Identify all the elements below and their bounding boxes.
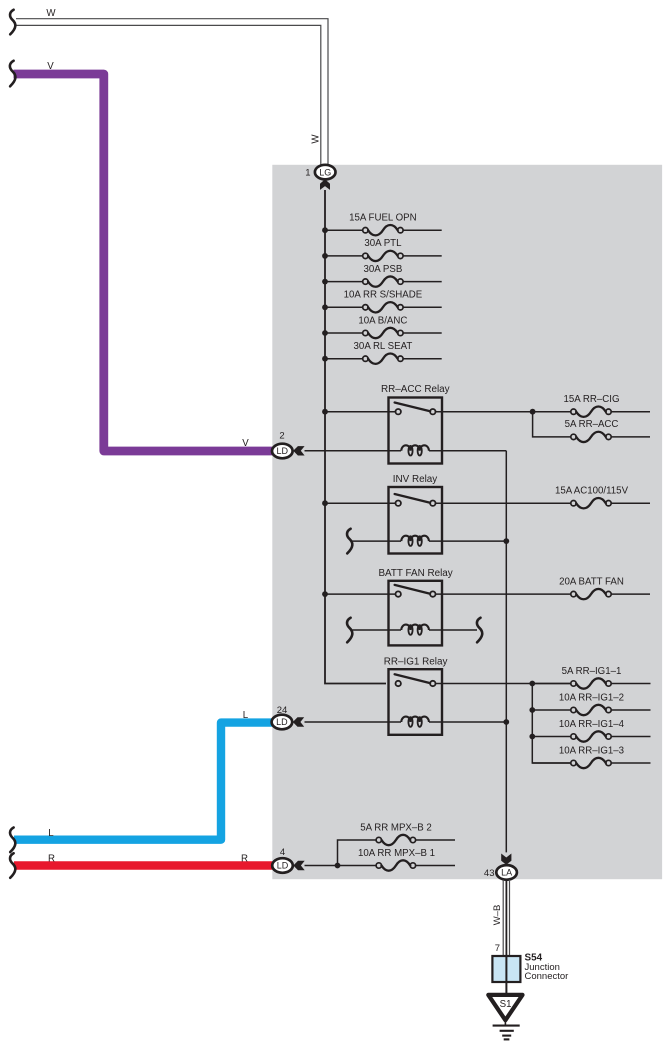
fuse 5A RR MPX–B 2 wire/symbol — [375, 839, 377, 841]
arrow up into LG — [320, 179, 330, 190]
junction on bus BATT FAN — [322, 591, 328, 597]
svg-text:15A AC100/115V: 15A AC100/115V — [555, 485, 629, 496]
junction on bus RR-ACC — [322, 409, 328, 415]
junction at RR-CIG branch — [530, 409, 536, 415]
break symbol on wire W — [10, 10, 15, 35]
fuse 5A RR–ACC wire/symbol — [570, 436, 572, 438]
svg-text:W: W — [311, 134, 322, 144]
svg-text:15A FUEL OPN: 15A FUEL OPN — [349, 213, 416, 224]
wire R (red) — [14, 861, 272, 869]
svg-text:2: 2 — [279, 431, 284, 442]
break symbol on wire V — [10, 61, 16, 87]
fuse 30A RL SEAT wire/symbol — [325, 358, 363, 360]
arrow down into LA — [501, 854, 511, 865]
svg-text:15A RR–CIG: 15A RR–CIG — [564, 394, 620, 405]
fuse 15A FUEL OPN wire/symbol — [325, 229, 363, 231]
relay RR-IG1 switch contact — [396, 681, 401, 686]
junction INV coil to right vertical — [503, 538, 509, 544]
svg-text:V: V — [47, 61, 54, 72]
fuse 10A RR S/SHADE wire/symbol — [325, 306, 363, 308]
break symbol on wire R — [10, 853, 15, 878]
junction on bus at 10A RR S/SHADE — [322, 304, 328, 310]
fuse 30A PTL wire/symbol — [325, 255, 363, 257]
svg-text:30A PTL: 30A PTL — [364, 238, 402, 249]
fuse 10A B/ANC wire/symbol — [325, 332, 363, 334]
fuse 10A RR–IG1–3 wire/symbol — [532, 762, 573, 764]
connector LG pin 1 — [315, 165, 336, 180]
svg-text:7: 7 — [495, 943, 500, 954]
wire L (blue) — [14, 723, 272, 840]
svg-text:10A RR–IG1–2: 10A RR–IG1–2 — [559, 692, 624, 703]
junction at branch 10A RR–IG1–4 — [529, 734, 535, 740]
relay RR-ACC box — [389, 398, 443, 464]
relay RR-IG1 coil — [401, 717, 429, 722]
svg-text:RR–ACC Relay: RR–ACC Relay — [381, 384, 450, 395]
svg-text:V: V — [242, 438, 249, 449]
wire W-B (white-black, outlined) — [503, 880, 509, 956]
fuse 10A RR–IG1–2 wire/symbol — [532, 709, 571, 711]
relay BATT FAN coil — [401, 625, 429, 630]
wire through S54 — [505, 956, 507, 995]
svg-text:BATT FAN Relay: BATT FAN Relay — [378, 568, 452, 579]
wire INV coil row — [353, 540, 507, 542]
svg-text:LD: LD — [276, 717, 288, 727]
wire V (violet) — [14, 74, 273, 451]
connector LA pin 43 — [496, 865, 517, 880]
relay RR-ACC coil — [401, 445, 429, 450]
svg-text:5A RR–ACC: 5A RR–ACC — [565, 419, 619, 430]
svg-text:5A RR MPX–B 2: 5A RR MPX–B 2 — [360, 822, 432, 833]
svg-text:R: R — [241, 854, 248, 865]
wire RR-ACC switch to fuse branch — [436, 411, 572, 413]
break symbol right of BATT FAN coil — [477, 618, 482, 643]
break symbol on wire L — [10, 828, 15, 853]
svg-text:L: L — [48, 828, 54, 839]
svg-text:LA: LA — [501, 868, 512, 878]
branch wire down to RR-ACC fuse — [533, 412, 571, 437]
svg-text:4: 4 — [280, 847, 285, 858]
junction RR-IG1 fuse branch — [529, 681, 535, 687]
wire BATT FAN switch to fuse — [436, 593, 572, 595]
connector LD pin 2 — [272, 444, 293, 459]
break symbol left of INV coil — [347, 529, 352, 554]
svg-text:20A BATT FAN: 20A BATT FAN — [559, 576, 624, 587]
svg-text:W–B: W–B — [492, 905, 503, 926]
connector LD pin 4 — [272, 858, 293, 873]
svg-text:LD: LD — [277, 861, 289, 871]
junction on bus at 15A FUEL OPN — [322, 227, 328, 233]
svg-text:Connector: Connector — [525, 971, 569, 982]
junction block panel — [272, 165, 662, 879]
junction on bus at 30A PSB — [322, 279, 328, 285]
svg-text:5A RR–IG1–1: 5A RR–IG1–1 — [562, 666, 622, 677]
wire RR-IG1 coil row (from LD 24 to right vertical) — [305, 721, 507, 723]
svg-text:INV Relay: INV Relay — [393, 474, 438, 485]
svg-text:10A RR–IG1–4: 10A RR–IG1–4 — [559, 719, 625, 730]
relay BATT FAN switch contact — [396, 591, 401, 596]
junction connector S54 box — [492, 956, 520, 982]
fuse 10A RR MPX–B 1 wire/symbol — [375, 865, 377, 867]
svg-text:RR–IG1 Relay: RR–IG1 Relay — [384, 656, 448, 667]
svg-text:LG: LG — [319, 167, 331, 177]
fuse 15A RR–CIG wire/symbol — [570, 411, 572, 413]
wire bus to INV switch — [325, 502, 396, 504]
branch wire up to MPX-B 2 fuse — [338, 840, 376, 866]
svg-text:30A RL SEAT: 30A RL SEAT — [354, 341, 413, 352]
wire LD 4 row to MPX fuses — [305, 865, 376, 867]
junction on bus at 30A RL SEAT — [322, 356, 328, 362]
relay INV switch contact — [396, 501, 401, 506]
main bus wire from LG down to RR-IG1 relay — [325, 190, 386, 684]
ground symbol — [504, 1020, 506, 1025]
junction on bus INV — [322, 500, 328, 506]
wire BATT FAN coil row — [353, 629, 478, 631]
fuse 30A PSB wire/symbol — [325, 281, 363, 283]
junction on bus at 10A B/ANC — [322, 330, 328, 336]
wire W (white, outlined) — [16, 19, 328, 165]
fuse 10A RR–IG1–4 wire/symbol — [532, 736, 571, 738]
svg-text:R: R — [48, 854, 55, 865]
svg-text:S1: S1 — [500, 999, 512, 1010]
arrow left into LD 4 — [293, 861, 304, 870]
relay BATT FAN box — [389, 581, 443, 646]
wire INV switch to fuse — [436, 502, 572, 504]
wire RR-IG1 switch to fuse branch — [436, 683, 571, 685]
break symbol left of BATT FAN coil — [347, 618, 352, 643]
fuse 20A BATT FAN wire/symbol — [570, 593, 572, 595]
svg-text:43: 43 — [484, 868, 495, 879]
junction at branch 10A RR–IG1–2 — [529, 707, 535, 713]
arrow left into LD 24 — [293, 717, 304, 726]
relay RR-IG1 box — [389, 669, 443, 735]
relay INV coil — [401, 536, 429, 541]
junction MPX branch — [335, 863, 341, 869]
svg-text:L: L — [243, 710, 249, 721]
svg-text:10A RR–IG1–3: 10A RR–IG1–3 — [559, 745, 624, 756]
fuse 15A AC100/115V wire/symbol — [570, 502, 572, 504]
svg-text:LD: LD — [277, 446, 289, 456]
junction on bus at 30A PTL — [322, 253, 328, 259]
wire bus to RR-ACC switch — [325, 411, 396, 413]
fuse 5A RR–IG1–1 wire/symbol — [532, 683, 573, 685]
right vertical wire (RR-ACC coil to LA 43) — [505, 451, 507, 853]
connector LD pin 24 — [272, 715, 293, 730]
arrow left into LD 2 — [293, 446, 304, 455]
svg-text:10A RR S/SHADE: 10A RR S/SHADE — [344, 290, 423, 301]
relay RR-ACC switch contact — [396, 409, 401, 414]
svg-text:10A RR MPX–B 1: 10A RR MPX–B 1 — [358, 848, 435, 859]
svg-text:1: 1 — [305, 168, 310, 179]
svg-text:10A B/ANC: 10A B/ANC — [358, 315, 407, 326]
branch wire down to RR-IG1 fuses — [532, 684, 571, 764]
wire W-B black core — [505, 880, 507, 956]
svg-text:W: W — [46, 8, 56, 19]
relay INV box — [389, 487, 443, 554]
svg-text:30A PSB: 30A PSB — [364, 264, 403, 275]
wire RR-ACC coil row (from LD 2 to right vertical) — [305, 450, 507, 452]
junction RR-IG1 coil to right vertical — [503, 719, 509, 725]
ground point S1 triangle — [488, 995, 522, 1020]
wire bus to BATT FAN switch — [325, 593, 396, 595]
